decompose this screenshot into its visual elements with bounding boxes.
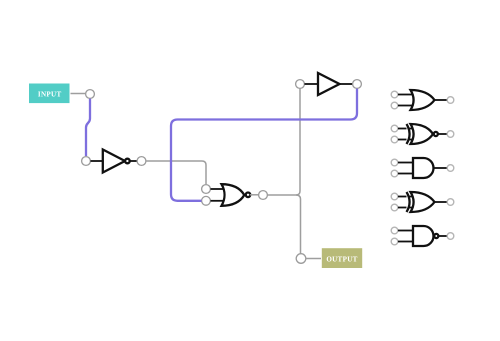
node buffer input bbox=[296, 80, 305, 89]
node NOT gate input bbox=[82, 157, 91, 166]
node input pin bbox=[86, 90, 95, 99]
palette NAND gate bbox=[391, 226, 454, 246]
wire (active) input node to NOT gate input bbox=[86, 99, 90, 156]
INPUT terminal bbox=[29, 84, 70, 104]
palette XNOR gate bbox=[391, 124, 454, 144]
wire INPUT terminal to input node bbox=[71, 93, 86, 95]
wire OUTPUT node to OUTPUT terminal bbox=[306, 258, 321, 260]
palette XOR gate bbox=[391, 192, 454, 212]
node NOR input B bbox=[202, 196, 211, 205]
node NOT gate output bbox=[137, 157, 146, 166]
wire (active) buffer output to NOR input B bbox=[171, 89, 357, 201]
node NOR output bbox=[259, 191, 268, 200]
OUTPUT terminal bbox=[322, 248, 362, 268]
NOT gate U1 bbox=[91, 150, 138, 173]
wire NOR output to buffer input bbox=[268, 89, 301, 195]
node NOR input A bbox=[202, 185, 211, 194]
svg-text:INPUT: INPUT bbox=[38, 90, 62, 98]
buffer gate U3 bbox=[305, 73, 353, 95]
NOR gate U2 bbox=[211, 184, 259, 206]
palette AND gate bbox=[391, 158, 454, 178]
palette OR gate bbox=[391, 90, 454, 110]
svg-text:OUTPUT: OUTPUT bbox=[326, 255, 357, 263]
wire NOT output to NOR input A bbox=[146, 161, 206, 184]
node OUTPUT pin bbox=[296, 254, 306, 264]
wire NOR output junction to OUTPUT node bbox=[296, 195, 301, 254]
node buffer output bbox=[353, 80, 362, 89]
